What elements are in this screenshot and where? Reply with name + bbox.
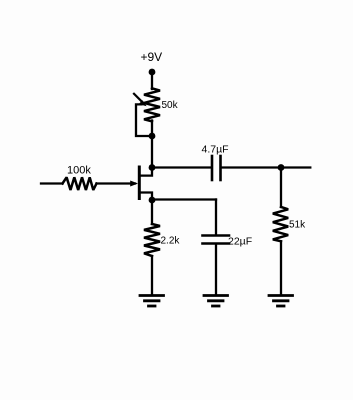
transistor Q1 source lead: [140, 193, 152, 201]
node +9V supply terminal: [149, 69, 156, 76]
potentiometer R1 50k body: [144, 88, 160, 121]
transistor Q1 drain lead: [140, 168, 152, 176]
svg-text:50k: 50k: [162, 100, 179, 111]
wire source node to C2: [152, 198, 216, 200]
node pot bottom junction: [149, 133, 156, 140]
potentiometer R1 wiper arrow: [134, 94, 143, 103]
svg-text:100k: 100k: [67, 165, 91, 177]
wire output stub: [281, 166, 310, 168]
wire R4 to ground: [151, 256, 153, 295]
svg-text:4.7µF: 4.7µF: [202, 144, 229, 156]
ground bypass: [204, 294, 228, 297]
resistor R3 51k: [273, 207, 288, 241]
wire drain node to C1: [152, 166, 212, 168]
resistor R2 100k: [63, 177, 97, 190]
node source junction: [149, 197, 156, 204]
wire down to C2 top plate: [215, 200, 217, 236]
node output junction: [278, 164, 285, 171]
wire R3 to ground: [280, 241, 282, 294]
wire output node down to R3: [280, 168, 282, 208]
wire supply to pot top: [151, 72, 153, 89]
transistor Q1 JFET channel bar: [138, 167, 141, 199]
svg-text:+9V: +9V: [141, 50, 163, 64]
wire input: [41, 182, 63, 184]
svg-text:2.2k: 2.2k: [161, 236, 181, 247]
wire C2 to ground: [215, 244, 217, 295]
svg-text:22µF: 22µF: [228, 236, 252, 248]
capacitor C2 22uF plates: [203, 234, 230, 237]
svg-text:51k: 51k: [289, 220, 306, 231]
node drain junction: [149, 164, 156, 171]
wire source node down to R4: [151, 200, 153, 224]
ground source: [140, 294, 164, 297]
resistor R4 2.2k: [144, 224, 160, 256]
wire C1 to output node: [221, 166, 281, 168]
capacitor C1 4.7uF plates: [211, 156, 214, 180]
ground output: [269, 294, 293, 297]
transistor Q1 gate lead with arrow: [97, 182, 136, 184]
wire wiper to bottom terminal: [136, 104, 152, 136]
wire pot bottom to drain node: [151, 121, 153, 168]
